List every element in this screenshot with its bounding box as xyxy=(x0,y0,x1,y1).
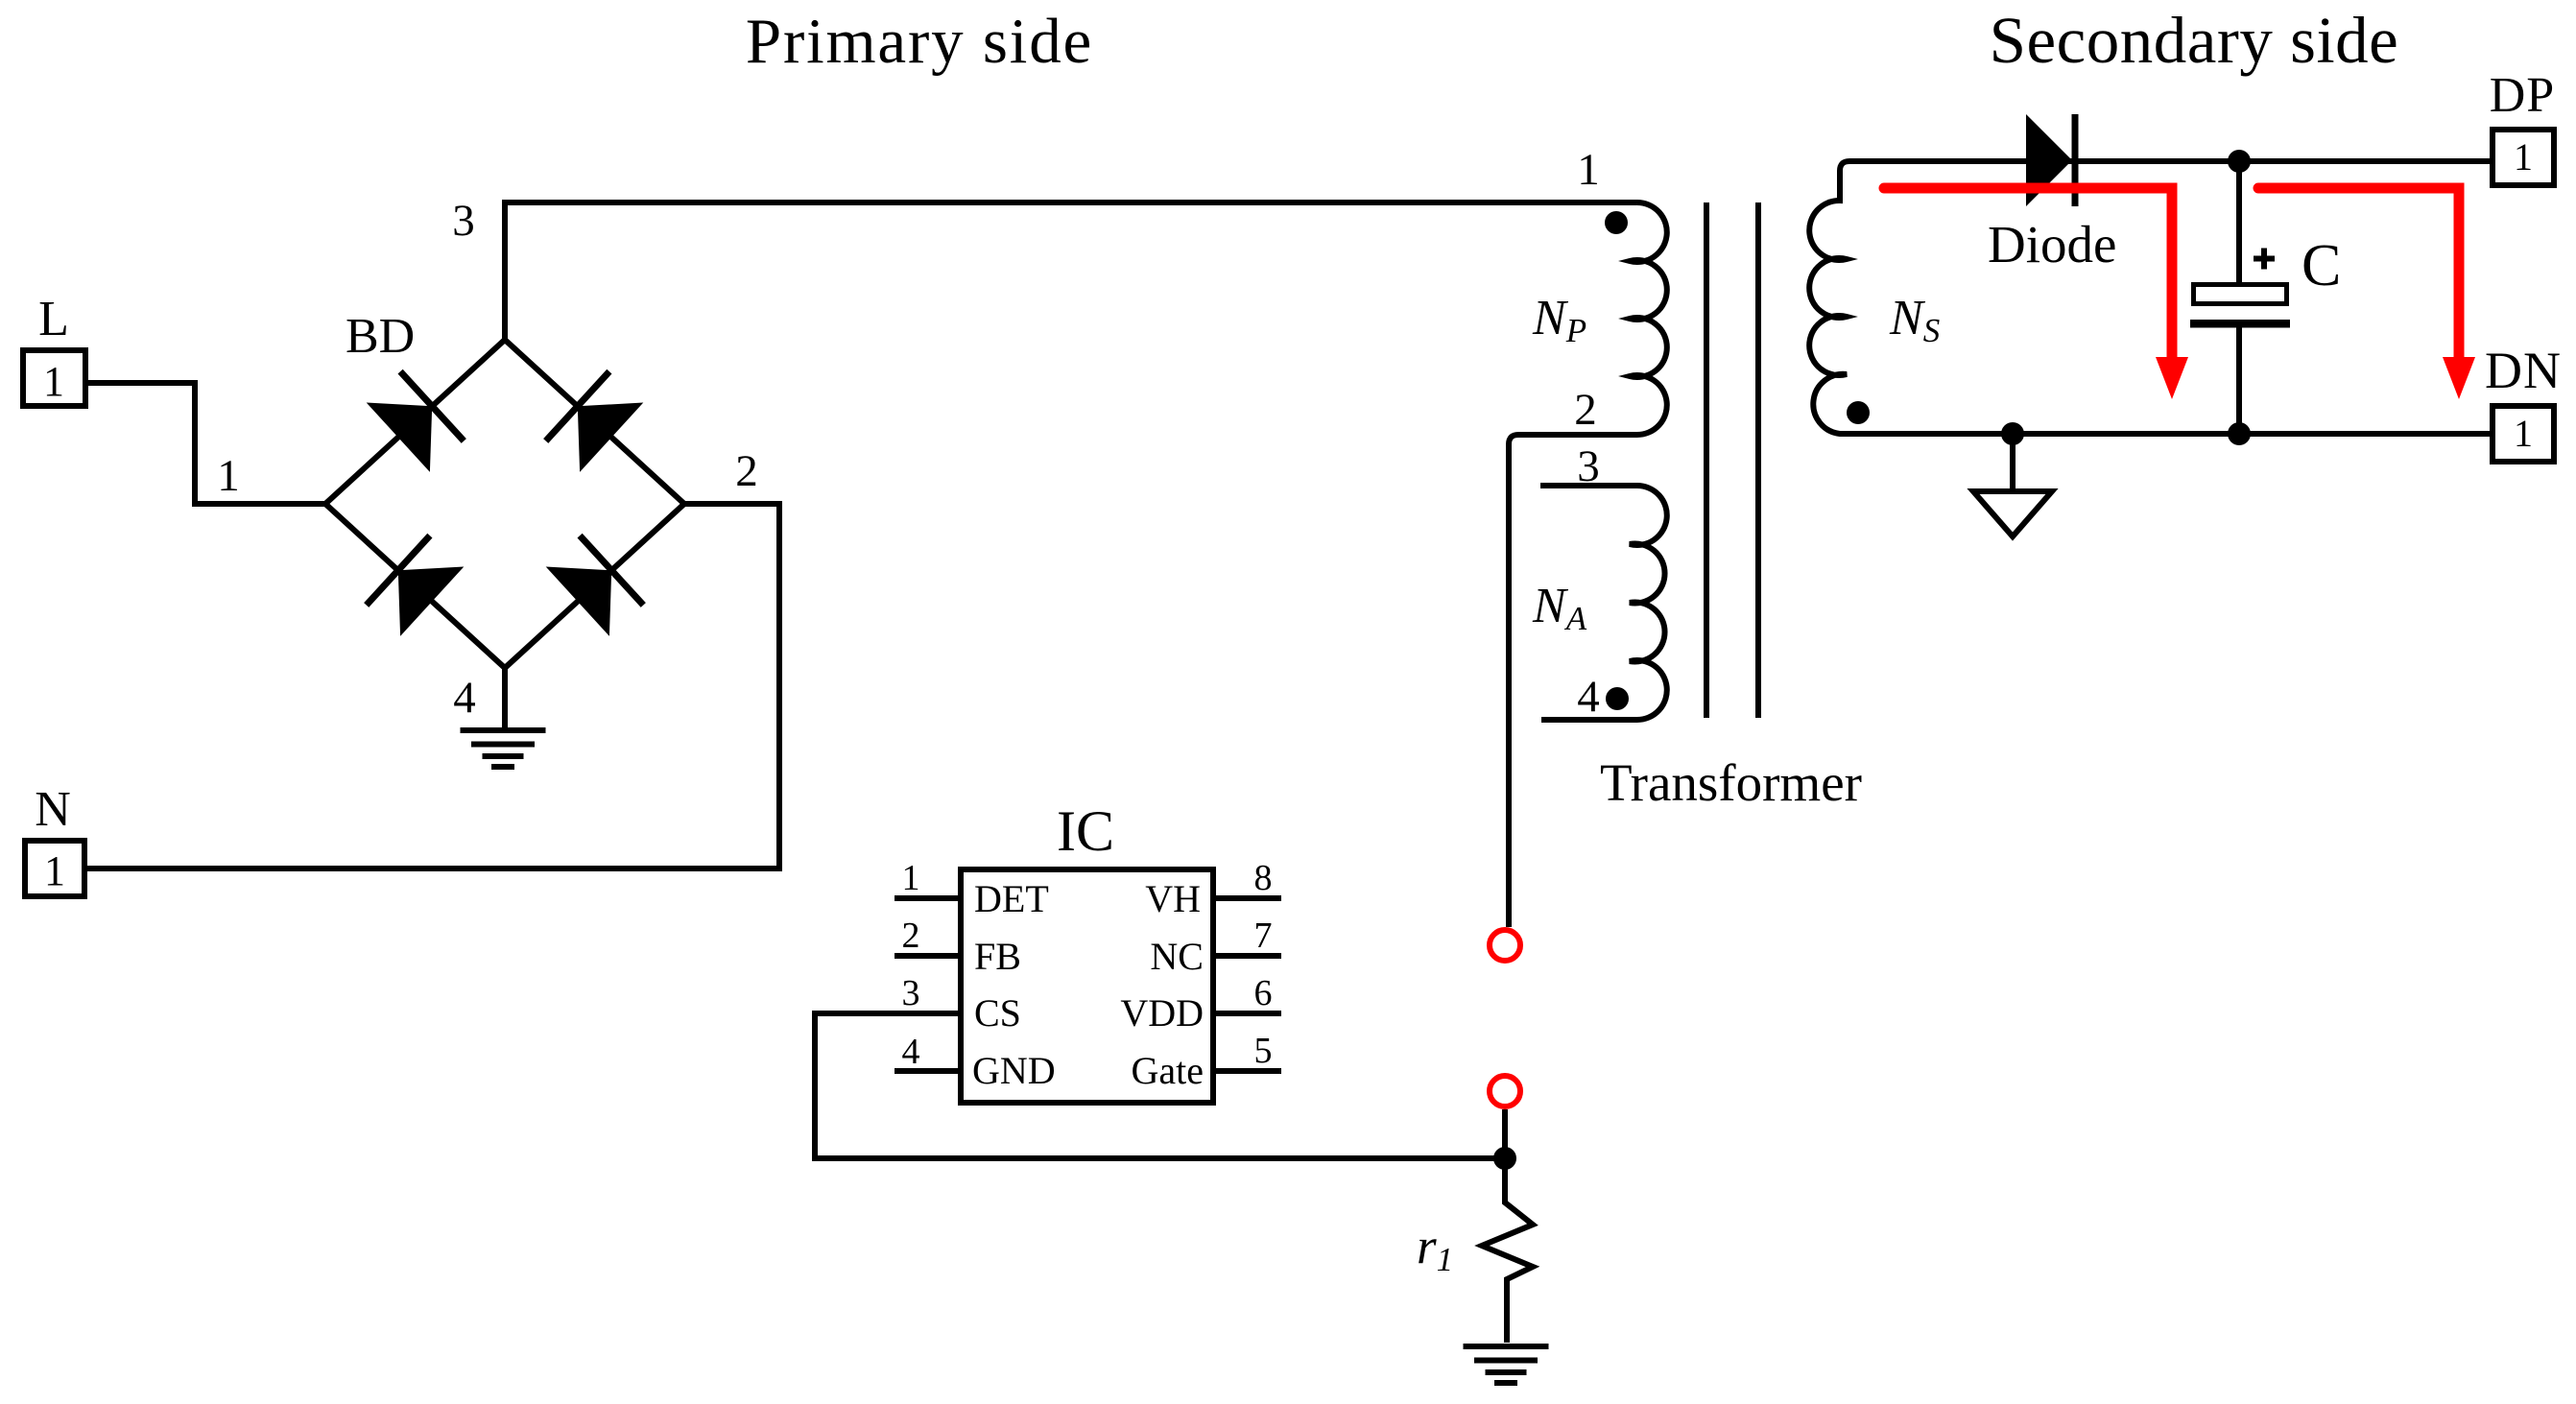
svg-text:2: 2 xyxy=(902,916,920,956)
svg-text:DN: DN xyxy=(2485,342,2562,399)
svg-text:1: 1 xyxy=(1577,145,1600,195)
svg-text:4: 4 xyxy=(453,673,476,723)
svg-text:6: 6 xyxy=(1254,973,1273,1013)
svg-text:Transformer: Transformer xyxy=(1600,753,1862,812)
svg-text:C: C xyxy=(2302,233,2341,298)
svg-text:3: 3 xyxy=(452,196,475,246)
svg-text:1: 1 xyxy=(902,858,920,898)
svg-text:4: 4 xyxy=(1577,672,1600,722)
svg-text:3: 3 xyxy=(1577,441,1600,491)
svg-text:N: N xyxy=(35,782,71,837)
svg-text:2: 2 xyxy=(1574,385,1597,435)
svg-text:1: 1 xyxy=(2514,412,2533,455)
svg-text:Gate: Gate xyxy=(1131,1049,1204,1092)
svg-text:1: 1 xyxy=(2514,135,2533,178)
svg-text:GND: GND xyxy=(972,1049,1056,1092)
svg-text:DET: DET xyxy=(974,877,1049,920)
svg-text:L: L xyxy=(38,292,69,346)
svg-text:CS: CS xyxy=(974,991,1021,1035)
svg-text:BD: BD xyxy=(346,309,415,364)
svg-text:3: 3 xyxy=(902,973,920,1013)
svg-text:IC: IC xyxy=(1057,799,1114,863)
svg-text:1: 1 xyxy=(44,847,65,894)
svg-text:VH: VH xyxy=(1145,877,1201,920)
svg-text:DP: DP xyxy=(2490,68,2555,123)
svg-text:1: 1 xyxy=(43,358,64,405)
svg-text:8: 8 xyxy=(1254,858,1273,898)
svg-text:NC: NC xyxy=(1150,935,1204,978)
svg-text:VDD: VDD xyxy=(1120,991,1204,1035)
svg-text:2: 2 xyxy=(735,446,758,496)
svg-text:5: 5 xyxy=(1254,1031,1273,1071)
svg-text:1: 1 xyxy=(217,451,240,501)
svg-text:7: 7 xyxy=(1254,916,1273,956)
svg-text:Secondary side: Secondary side xyxy=(1990,4,2399,77)
svg-text:4: 4 xyxy=(902,1032,920,1072)
svg-text:Diode: Diode xyxy=(1988,215,2116,274)
svg-text:FB: FB xyxy=(974,935,1021,978)
svg-text:Primary side: Primary side xyxy=(746,6,1093,77)
